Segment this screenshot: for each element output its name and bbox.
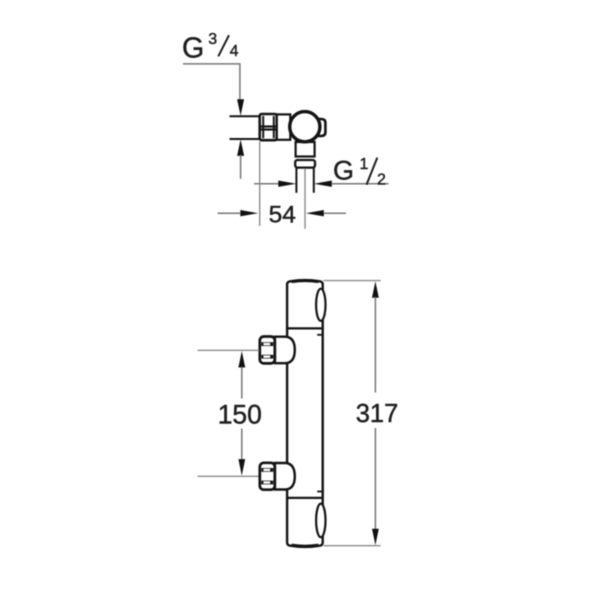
extension line upper fitting [198, 349, 260, 351]
bar body (front view) [287, 280, 323, 547]
svg-text:4: 4 [230, 43, 239, 60]
side tab on valve body [319, 119, 326, 136]
svg-text:G: G [182, 33, 204, 65]
top knob ellipse [316, 289, 325, 321]
centerline of outlet pipe [304, 168, 306, 229]
G1/2 dimension arrows [254, 181, 389, 187]
extension line for 54 (left) [259, 142, 261, 226]
upper union nut [260, 337, 275, 364]
extension line lower fitting [198, 475, 260, 477]
label G1/2 [333, 156, 386, 189]
bottom section line [287, 497, 323, 499]
dimension 54 [218, 201, 347, 228]
lower fitting bell [275, 463, 295, 490]
top cap emphasis arc [292, 281, 319, 282]
union nut G3/4 [260, 114, 277, 140]
connector block [277, 114, 291, 139]
arrow down to pipe top [237, 99, 244, 116]
leader line G3/4 [183, 64, 240, 100]
svg-text:150: 150 [218, 399, 262, 429]
upper fitting bell [275, 337, 295, 364]
svg-text:54: 54 [269, 201, 296, 228]
svg-text:G: G [333, 156, 354, 186]
pipe G3/4 inlet [230, 115, 261, 117]
svg-text:3: 3 [208, 31, 217, 48]
outlet nut band [295, 160, 315, 168]
outlet pipe G1/2 [295, 168, 297, 193]
neck below valve body [296, 142, 315, 157]
valve body circle [290, 112, 320, 142]
arrow up to pipe bottom [237, 139, 244, 156]
dimension 317 [356, 281, 399, 545]
bottom cap emphasis arc [292, 545, 319, 546]
svg-text:1: 1 [360, 156, 369, 173]
extension line 317 top [324, 280, 381, 282]
svg-text:2: 2 [377, 172, 386, 189]
bottom knob ellipse [316, 504, 325, 538]
bottom tick [317, 491, 323, 493]
lower union nut [260, 463, 275, 490]
extension line 317 bottom [324, 545, 381, 547]
top section line [287, 327, 323, 329]
label G3/4 [182, 31, 239, 65]
top tick [317, 334, 323, 336]
dimension 150 [218, 351, 262, 476]
svg-text:317: 317 [356, 400, 399, 428]
